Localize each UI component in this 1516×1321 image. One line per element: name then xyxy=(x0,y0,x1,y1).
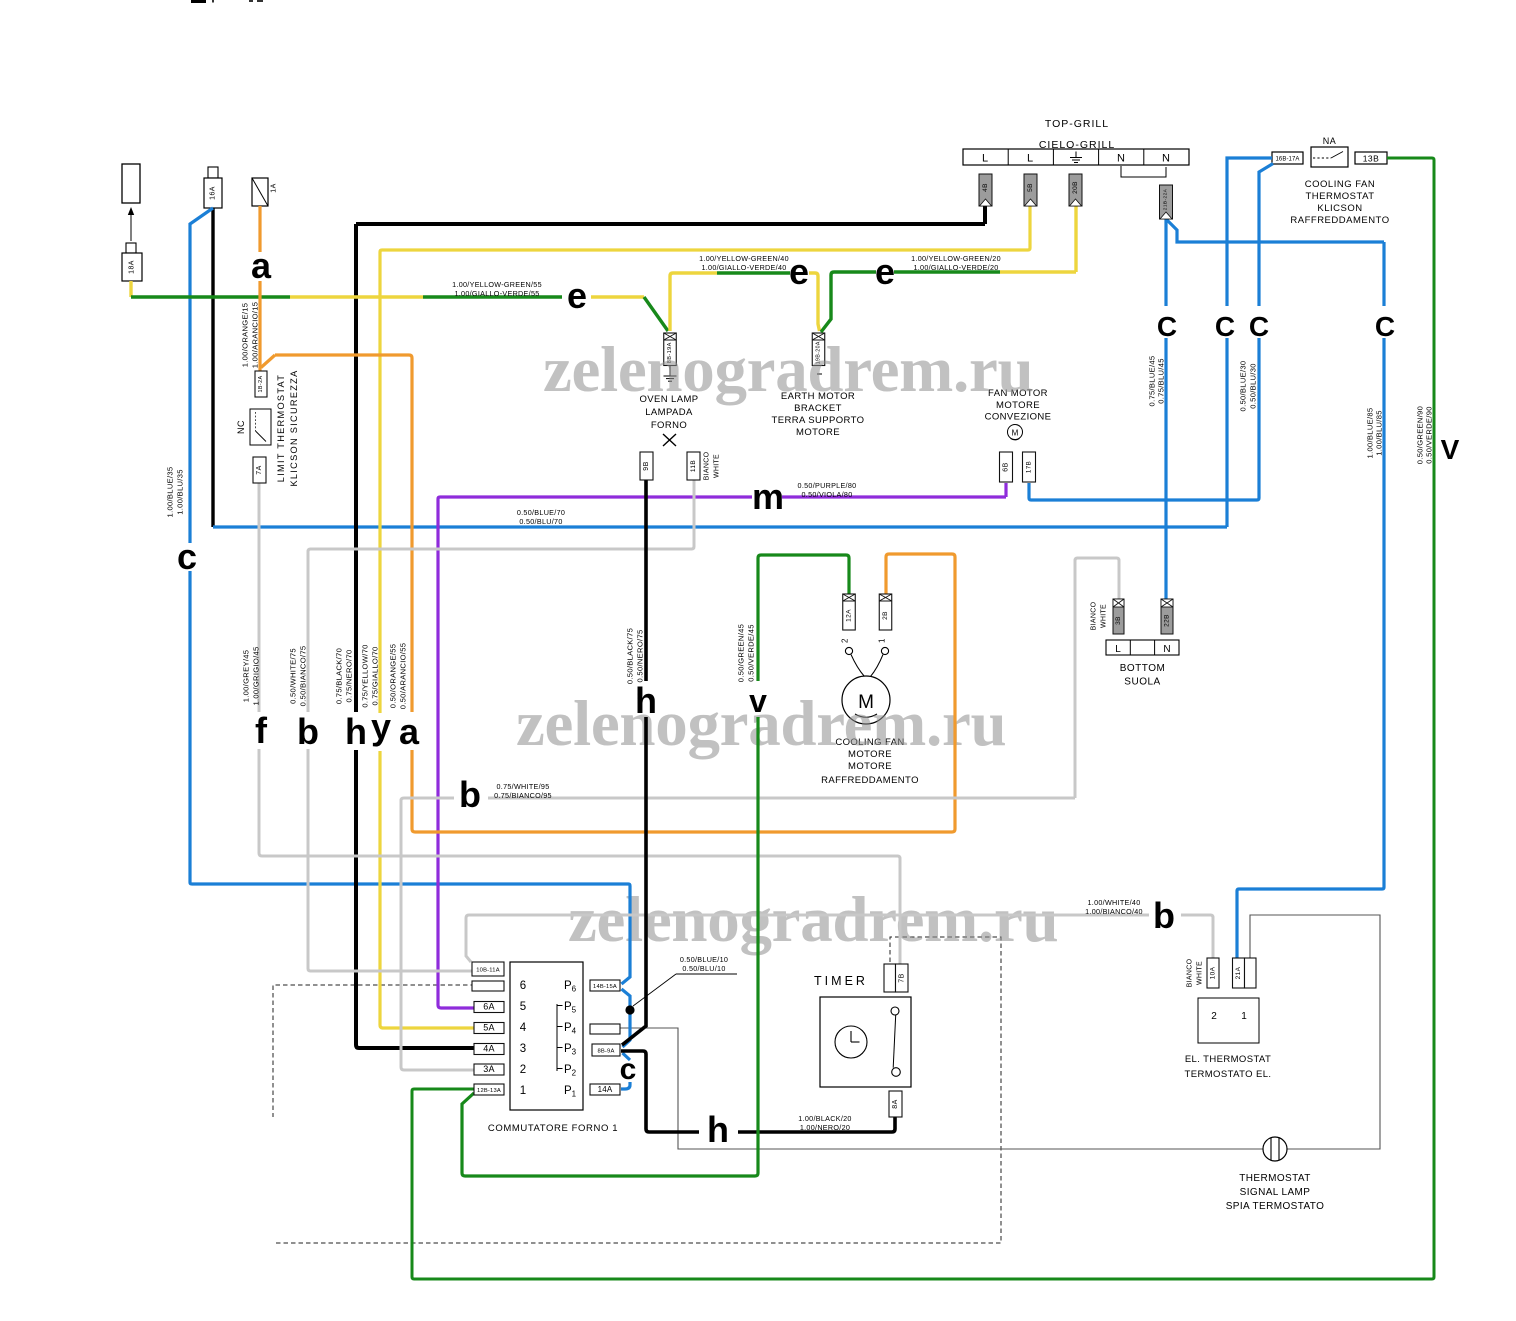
svg-text:0.50/BLUE/70: 0.50/BLUE/70 xyxy=(517,508,565,517)
svg-text:C: C xyxy=(1375,311,1395,342)
svg-text:FORNO: FORNO xyxy=(651,420,687,431)
svg-text:11B: 11B xyxy=(690,460,697,472)
svg-text:C: C xyxy=(1215,311,1235,342)
svg-text:0.50/PURPLE/80: 0.50/PURPLE/80 xyxy=(798,481,857,490)
svg-text:14A: 14A xyxy=(598,1085,613,1094)
svg-text:zelenogradrem.ru: zelenogradrem.ru xyxy=(543,334,1033,406)
svg-text:SPIA TERMOSTATO: SPIA TERMOSTATO xyxy=(1226,1201,1325,1212)
svg-text:0.50/BIANCO/75: 0.50/BIANCO/75 xyxy=(299,646,308,707)
svg-text:0.50/VERDE/90: 0.50/VERDE/90 xyxy=(1425,406,1434,464)
svg-text:LAMPADA: LAMPADA xyxy=(645,407,693,418)
svg-text:WHITE: WHITE xyxy=(1197,961,1204,985)
svg-text:L: L xyxy=(1115,644,1121,655)
svg-text:4: 4 xyxy=(520,1022,527,1034)
svg-text:0.50/BLU/10: 0.50/BLU/10 xyxy=(682,964,725,973)
svg-text:10A: 10A xyxy=(1210,966,1217,979)
svg-text:b: b xyxy=(1153,895,1175,936)
svg-text:14B-15A: 14B-15A xyxy=(593,984,617,990)
svg-text:4A: 4A xyxy=(483,1043,494,1053)
svg-text:3B: 3B xyxy=(1115,616,1122,625)
svg-text:5B: 5B xyxy=(1027,183,1034,192)
svg-text:c: c xyxy=(620,1053,637,1086)
svg-text:e: e xyxy=(789,251,809,292)
svg-text:7B: 7B xyxy=(898,973,905,982)
svg-text:RAFFREDDAMENTO: RAFFREDDAMENTO xyxy=(821,775,919,786)
svg-text:6B: 6B xyxy=(1003,462,1010,471)
svg-text:0.50/BLUE/30: 0.50/BLUE/30 xyxy=(1239,361,1248,412)
svg-text:THERMOSTAT: THERMOSTAT xyxy=(1305,191,1374,202)
svg-text:TERRA SUPPORTO: TERRA SUPPORTO xyxy=(772,415,865,426)
svg-text:10B-11A: 10B-11A xyxy=(476,967,500,973)
svg-text:1.00/BLACK/20: 1.00/BLACK/20 xyxy=(798,1114,851,1123)
svg-text:L: L xyxy=(1027,153,1033,165)
svg-text:0.75/YELLOW/70: 0.75/YELLOW/70 xyxy=(361,644,370,707)
svg-text:0.50/ARANCIO/55: 0.50/ARANCIO/55 xyxy=(399,643,408,710)
svg-text:21A: 21A xyxy=(1235,966,1242,979)
svg-text:c: c xyxy=(177,536,197,577)
svg-text:0.50/GREEN/90: 0.50/GREEN/90 xyxy=(1416,406,1425,464)
svg-text:4B: 4B xyxy=(982,183,989,192)
svg-text:SIGNAL LAMP: SIGNAL LAMP xyxy=(1240,1187,1311,1198)
svg-text:1.00/GREY/45: 1.00/GREY/45 xyxy=(242,650,251,703)
svg-text:L: L xyxy=(982,153,988,165)
svg-text:17B: 17B xyxy=(1026,461,1033,473)
svg-text:h: h xyxy=(635,680,657,721)
svg-text:TOP-GRILL: TOP-GRILL xyxy=(1045,118,1109,130)
svg-text:TERMOSTATO EL.: TERMOSTATO EL. xyxy=(1185,1069,1272,1080)
svg-text:0.50/NERO/75: 0.50/NERO/75 xyxy=(636,630,645,683)
svg-text:0.75/BIANCO/95: 0.75/BIANCO/95 xyxy=(494,791,552,800)
svg-text:m: m xyxy=(752,476,784,517)
svg-text:MOTORE: MOTORE xyxy=(848,761,892,772)
svg-text:N: N xyxy=(1117,153,1125,165)
svg-text:e: e xyxy=(567,275,587,316)
svg-text:COMMUTATORE FORNO 1: COMMUTATORE FORNO 1 xyxy=(488,1123,618,1134)
svg-text:0.50/BLU/30: 0.50/BLU/30 xyxy=(1249,363,1258,409)
svg-text:BOTTOM: BOTTOM xyxy=(1120,663,1166,674)
svg-text:N: N xyxy=(1163,644,1170,655)
svg-text:b: b xyxy=(459,774,481,815)
svg-text:0.50/BLU/70: 0.50/BLU/70 xyxy=(519,517,562,526)
svg-text:NC: NC xyxy=(236,420,246,434)
svg-text:0.50/GREEN/45: 0.50/GREEN/45 xyxy=(737,624,746,682)
svg-text:a: a xyxy=(251,245,272,286)
svg-text:C: C xyxy=(1157,311,1177,342)
svg-text:18A: 18A xyxy=(129,260,136,274)
svg-text:BIANCO: BIANCO xyxy=(704,451,711,480)
svg-text:CIELO-GRILL: CIELO-GRILL xyxy=(1039,139,1115,151)
svg-text:LIMIT THERMOSTAT: LIMIT THERMOSTAT xyxy=(276,374,286,482)
svg-text:9B: 9B xyxy=(643,461,650,470)
svg-text:12B-13A: 12B-13A xyxy=(477,1088,501,1094)
svg-text:M: M xyxy=(1012,429,1019,438)
svg-text:WHITE: WHITE xyxy=(714,454,721,478)
svg-text:2: 2 xyxy=(1211,1011,1217,1022)
svg-text:3A: 3A xyxy=(483,1064,494,1074)
svg-text:13B: 13B xyxy=(1363,154,1380,164)
svg-text:12A: 12A xyxy=(846,609,853,622)
svg-text:KLICSON SICUREZZA: KLICSON SICUREZZA xyxy=(289,369,299,486)
svg-text:5: 5 xyxy=(520,1001,526,1013)
svg-text:0.50/WHITE/75: 0.50/WHITE/75 xyxy=(289,648,298,704)
svg-text:e: e xyxy=(875,251,895,292)
svg-text:CONVEZIONE: CONVEZIONE xyxy=(985,412,1052,423)
svg-text:1: 1 xyxy=(520,1085,526,1097)
svg-text:SUOLA: SUOLA xyxy=(1124,677,1160,688)
svg-text:8A: 8A xyxy=(892,1099,899,1108)
svg-text:TIMER: TIMER xyxy=(814,974,868,988)
svg-text:2: 2 xyxy=(841,638,850,643)
svg-text:BIANCO: BIANCO xyxy=(1187,958,1194,987)
svg-text:0.50/BLACK/75: 0.50/BLACK/75 xyxy=(626,628,635,684)
svg-text:MOTORE: MOTORE xyxy=(796,427,840,438)
svg-text:N: N xyxy=(1162,153,1170,165)
svg-text:0.75/GIALLO/70: 0.75/GIALLO/70 xyxy=(371,646,380,705)
svg-text:0.75/BLUE/45: 0.75/BLUE/45 xyxy=(1148,356,1157,407)
svg-text:f: f xyxy=(255,710,268,751)
svg-text:0.50/ORANGE/55: 0.50/ORANGE/55 xyxy=(389,644,398,709)
svg-text:1.00/GIALLO-VERDE/55: 1.00/GIALLO-VERDE/55 xyxy=(454,289,539,298)
svg-text:1.00/ARANCIO/15: 1.00/ARANCIO/15 xyxy=(251,302,260,369)
svg-text:1.00/BLUE/35: 1.00/BLUE/35 xyxy=(166,467,175,518)
svg-text:16B-17A: 16B-17A xyxy=(1275,157,1299,163)
svg-text:b: b xyxy=(297,711,319,752)
svg-text:RAFFREDDAMENTO: RAFFREDDAMENTO xyxy=(1290,215,1389,226)
svg-text:EL. THERMOSTAT: EL. THERMOSTAT xyxy=(1185,1054,1271,1065)
svg-text:1.00/BLU/35: 1.00/BLU/35 xyxy=(176,469,185,515)
svg-text:1.00/ORANGE/15: 1.00/ORANGE/15 xyxy=(241,303,250,368)
svg-text:C: C xyxy=(1249,311,1269,342)
svg-text:h: h xyxy=(345,711,367,752)
svg-text:7A: 7A xyxy=(256,465,263,474)
svg-text:zelenogradrem.ru: zelenogradrem.ru xyxy=(568,884,1058,956)
svg-text:3: 3 xyxy=(520,1043,526,1055)
svg-text:0.75/BLACK/70: 0.75/BLACK/70 xyxy=(335,648,344,704)
svg-text:1.00/WHITE/40: 1.00/WHITE/40 xyxy=(1087,898,1140,907)
svg-text:1.00/BLU/85: 1.00/BLU/85 xyxy=(1375,410,1384,456)
svg-text:KLICSON: KLICSON xyxy=(1317,203,1362,214)
svg-text:1.00/GIALLO-VERDE/20: 1.00/GIALLO-VERDE/20 xyxy=(913,263,998,272)
svg-text:1.00/YELLOW-GREEN/40: 1.00/YELLOW-GREEN/40 xyxy=(699,254,789,263)
svg-text:1.00/YELLOW-GREEN/20: 1.00/YELLOW-GREEN/20 xyxy=(911,254,1001,263)
svg-text:1.00/YELLOW-GREEN/55: 1.00/YELLOW-GREEN/55 xyxy=(452,280,542,289)
svg-text:WHITE: WHITE xyxy=(1101,604,1108,628)
svg-text:16A: 16A xyxy=(210,186,217,200)
svg-text:1: 1 xyxy=(1241,1011,1247,1022)
svg-text:5A: 5A xyxy=(483,1022,494,1032)
svg-text:0.75/BLU/45: 0.75/BLU/45 xyxy=(1157,358,1166,404)
svg-text:1: 1 xyxy=(878,638,887,643)
svg-text:21B-22A: 21B-22A xyxy=(1163,188,1169,210)
svg-text:1A: 1A xyxy=(271,183,278,192)
svg-text:1.00/GIALLO-VERDE/40: 1.00/GIALLO-VERDE/40 xyxy=(701,263,786,272)
svg-text:2: 2 xyxy=(520,1064,526,1076)
svg-text:0.50/VIOLA/80: 0.50/VIOLA/80 xyxy=(801,490,852,499)
svg-text:8B-9A: 8B-9A xyxy=(597,1048,614,1054)
svg-text:0.50/VERDE/45: 0.50/VERDE/45 xyxy=(747,624,756,682)
svg-text:h: h xyxy=(707,1109,729,1150)
svg-text:V: V xyxy=(1441,434,1460,465)
svg-text:THERMOSTAT: THERMOSTAT xyxy=(1239,1173,1310,1184)
svg-text:y: y xyxy=(371,706,391,747)
svg-text:BIANCO: BIANCO xyxy=(1091,601,1098,630)
svg-text:0.50/BLUE/10: 0.50/BLUE/10 xyxy=(680,955,728,964)
svg-text:1.00/NERO/20: 1.00/NERO/20 xyxy=(800,1123,850,1132)
svg-text:NA: NA xyxy=(1323,136,1337,146)
svg-text:v: v xyxy=(749,683,767,719)
svg-text:2B: 2B xyxy=(882,611,889,620)
svg-text:20B: 20B xyxy=(1072,181,1079,194)
svg-text:22B: 22B xyxy=(1164,614,1171,627)
svg-text:1.00/BLUE/85: 1.00/BLUE/85 xyxy=(1366,408,1375,459)
svg-text:0.75/NERO/70: 0.75/NERO/70 xyxy=(345,650,354,703)
svg-text:1.00/BIANCO/40: 1.00/BIANCO/40 xyxy=(1085,907,1143,916)
svg-text:a: a xyxy=(399,711,420,752)
svg-text:0.75/WHITE/95: 0.75/WHITE/95 xyxy=(496,782,549,791)
svg-text:6: 6 xyxy=(520,980,526,992)
svg-text:COOLING FAN: COOLING FAN xyxy=(1305,179,1375,190)
svg-text:1B-2A: 1B-2A xyxy=(258,376,264,393)
svg-text:1.00/GRIGIO/45: 1.00/GRIGIO/45 xyxy=(252,646,261,705)
svg-text:6A: 6A xyxy=(483,1001,494,1011)
